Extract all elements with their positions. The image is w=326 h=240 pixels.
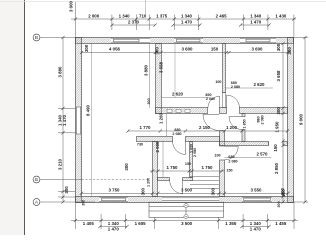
svg-text:300: 300 [211,187,216,195]
wall left [76,38,82,203]
svg-text:В: В [35,35,38,40]
wall H1 pier [220,108,227,114]
axis V [33,34,75,41]
hall dimension chain [128,130,288,132]
wall P1 [190,142,193,178]
sheet margin [0,0,24,235]
door A4 closet in H3 [173,141,186,155]
window W4 left [76,107,81,134]
right inner chain [282,44,284,203]
svg-text:3 880: 3 880 [57,66,62,78]
living room 3880 dim [149,44,151,109]
svg-text:1 260: 1 260 [159,112,164,124]
svg-text:3 750: 3 750 [109,188,121,193]
svg-text:3 600: 3 600 [182,47,194,52]
living room 8490 dim [91,44,93,197]
svg-text:2 370: 2 370 [128,20,140,25]
svg-text:1 470: 1 470 [108,226,120,231]
bottom dimension chain [71,202,298,229]
sheet border [24,0,26,235]
site dim 3000 [69,0,146,15]
svg-text:3 600: 3 600 [252,47,264,52]
axis B dashed through living room [82,179,150,181]
svg-text:1 470: 1 470 [62,114,67,126]
svg-text:1 455: 1 455 [275,221,287,226]
svg-text:390: 390 [82,200,86,206]
svg-text:3 500: 3 500 [181,221,193,226]
svg-text:2 620: 2 620 [254,82,266,87]
svg-text:1 200: 1 200 [147,178,151,187]
window W3 top [240,38,276,43]
svg-text:100: 100 [215,80,221,84]
inner top chain [82,52,289,54]
svg-text:300: 300 [64,186,69,194]
hall 2000 [162,141,164,178]
svg-text:300: 300 [147,98,151,104]
svg-text:1 405: 1 405 [83,221,95,226]
svg-text:2 465: 2 465 [216,14,228,19]
svg-text:4 056: 4 056 [109,47,121,52]
svg-text:1 750: 1 750 [202,165,214,170]
wall V1b [153,142,158,197]
porch markers [184,202,188,219]
kitchen 2620 [161,97,209,99]
door A6 bedroom in V2b [225,146,239,160]
svg-text:1 430: 1 430 [275,14,287,19]
svg-text:1 470: 1 470 [250,20,262,25]
svg-text:300: 300 [140,187,145,195]
door A7 bath in V3 [229,117,242,130]
svg-text:2 080: 2 080 [228,159,237,163]
wall H1 c [240,108,288,114]
svg-text:150: 150 [273,144,278,152]
bottom inner chain [82,192,289,194]
wall V3 upper [242,114,245,117]
svg-text:300: 300 [276,43,281,51]
window W2 top [174,38,203,43]
svg-text:2 080: 2 080 [206,97,215,101]
entrance opening [162,197,219,202]
door A3 vestibule-hall [203,115,219,131]
svg-text:1 340: 1 340 [119,14,131,19]
svg-text:2 000: 2 000 [155,141,160,153]
svg-text:2 080: 2 080 [261,115,265,124]
top dimension chain [71,15,296,38]
wall H2 b [283,142,288,146]
window W1 top [111,38,150,43]
svg-text:А: А [35,200,38,205]
window W6 bottom [242,197,272,201]
svg-text:2 850: 2 850 [274,162,279,174]
svg-text:9 000: 9 000 [299,113,304,125]
svg-text:1 340: 1 340 [181,14,193,19]
svg-text:1 340: 1 340 [250,221,262,226]
svg-text:2 620: 2 620 [172,92,184,97]
svg-text:Б: Б [35,177,38,182]
wall top [76,38,294,44]
svg-text:1 470: 1 470 [181,20,193,25]
door A5 in H5 [170,180,183,193]
svg-text:1 605: 1 605 [135,221,147,226]
svg-text:150: 150 [185,162,191,166]
svg-text:300: 300 [276,107,281,115]
svg-text:1 355: 1 355 [225,221,237,226]
svg-text:710: 710 [139,14,147,19]
svg-text:2 570: 2 570 [257,152,269,157]
svg-text:3 880: 3 880 [143,64,148,76]
svg-text:3 500: 3 500 [181,188,193,193]
window W5 bottom [99,197,128,201]
svg-text:1 770: 1 770 [140,125,152,130]
axis B [33,176,81,183]
bedroom 2570 [225,157,272,159]
svg-text:1 375: 1 375 [156,14,168,19]
wall V2b upper [220,131,225,147]
left dimension chain [58,38,76,203]
vent channels [167,109,190,112]
wall bottom [76,197,294,203]
svg-text:8 490: 8 490 [85,104,90,116]
wall H1 a [156,108,208,114]
wall H5 a [158,178,170,181]
wall right [288,38,294,203]
svg-text:300: 300 [155,47,160,55]
svg-text:2 000: 2 000 [88,14,100,19]
svg-text:300: 300 [277,201,281,207]
svg-text:1 750: 1 750 [167,165,179,170]
landing steps [190,177,219,189]
svg-text:2 150: 2 150 [199,125,211,130]
svg-text:2 080: 2 080 [193,148,197,157]
wall H3 a closet top [137,137,173,142]
door A2 top-right room [227,95,240,108]
svg-text:300: 300 [84,44,89,52]
svg-text:730: 730 [137,143,143,147]
svg-text:150: 150 [226,168,232,172]
axis A [33,199,95,206]
svg-text:1 950: 1 950 [275,121,280,133]
wall H5 b [183,178,193,181]
svg-text:150: 150 [211,46,219,51]
svg-text:3 210: 3 210 [57,158,62,170]
wall V1 [156,44,162,114]
svg-text:300: 300 [124,163,129,171]
wall H3 b closet top [186,137,220,142]
room 2620 [225,87,273,89]
svg-text:3 550: 3 550 [251,188,263,193]
svg-text:1 470: 1 470 [250,226,262,231]
wall V2 [223,44,226,93]
svg-text:300: 300 [281,189,286,197]
svg-text:1 650: 1 650 [243,119,247,128]
door A1 kitchen [208,96,220,108]
svg-text:2 080: 2 080 [231,85,240,89]
svg-text:1 340: 1 340 [250,14,262,19]
svg-text:100: 100 [214,153,220,157]
svg-text:3 558: 3 558 [159,61,164,73]
porch steps [149,202,224,217]
wall V3 lower [242,130,245,142]
wall H2 a [220,142,269,146]
svg-text:3 658: 3 658 [276,70,281,82]
closet chain [150,170,225,172]
wall V2b lower [220,160,225,197]
svg-text:2 080: 2 080 [172,132,181,136]
sheet top edge [0,1,326,3]
outer right chain 9000 [294,38,308,203]
svg-text:1 200: 1 200 [226,125,238,130]
svg-text:3 000: 3 000 [69,0,74,12]
svg-text:300: 300 [287,47,292,55]
hall 1260 [165,114,167,137]
svg-text:1 340: 1 340 [108,221,120,226]
